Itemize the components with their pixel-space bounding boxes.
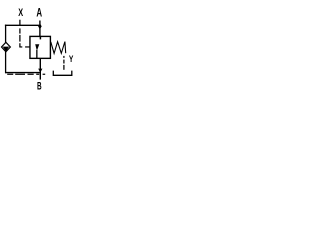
wire: B port vertical line [39, 59, 41, 80]
check valve V1: diamond body [2, 42, 11, 51]
valve U1: internal flow line to bottom port [36, 50, 38, 58]
background [0, 0, 77, 97]
check valve V1: inner seat triangle (free flow down) [3, 47, 9, 52]
svg-text:Y: Y [69, 54, 74, 64]
drain line: dashed horizontal at bottom [7, 73, 45, 75]
svg-text:X: X [18, 7, 23, 20]
flow arrowhead at B junction (pointing down) [38, 69, 42, 73]
valve U1: inlet port stub inside top edge [39, 37, 41, 40]
hydraulic valve schematic: pilot-operated pressure reducing valve with check valve, ports A/B, pilot X, drain Y, tank [0, 0, 77, 97]
wire: A port vertical line [39, 21, 41, 37]
pilot line X: dashed horizontal into valve left side [19, 46, 29, 48]
drain line Y: dashed vertical into tank [63, 56, 65, 70]
wire: left rail upper segment (top line to check valve) [5, 25, 7, 43]
svg-text:B: B [37, 80, 42, 92]
tank symbol [53, 71, 72, 76]
svg-text:A: A [36, 7, 42, 20]
wire: bottom horizontal line (B branch) [5, 72, 40, 74]
flow arrowhead at A junction (pointing down) [38, 26, 42, 30]
valve body U1: square [30, 36, 50, 58]
spring on valve right side [51, 42, 66, 54]
valve U1: internal flow arrowhead (down) [35, 44, 39, 51]
wire: left rail lower segment (check valve to bottom line) [5, 52, 7, 74]
wire: top horizontal line (A branch) [5, 24, 41, 26]
pilot line X: dashed vertical [19, 20, 21, 48]
